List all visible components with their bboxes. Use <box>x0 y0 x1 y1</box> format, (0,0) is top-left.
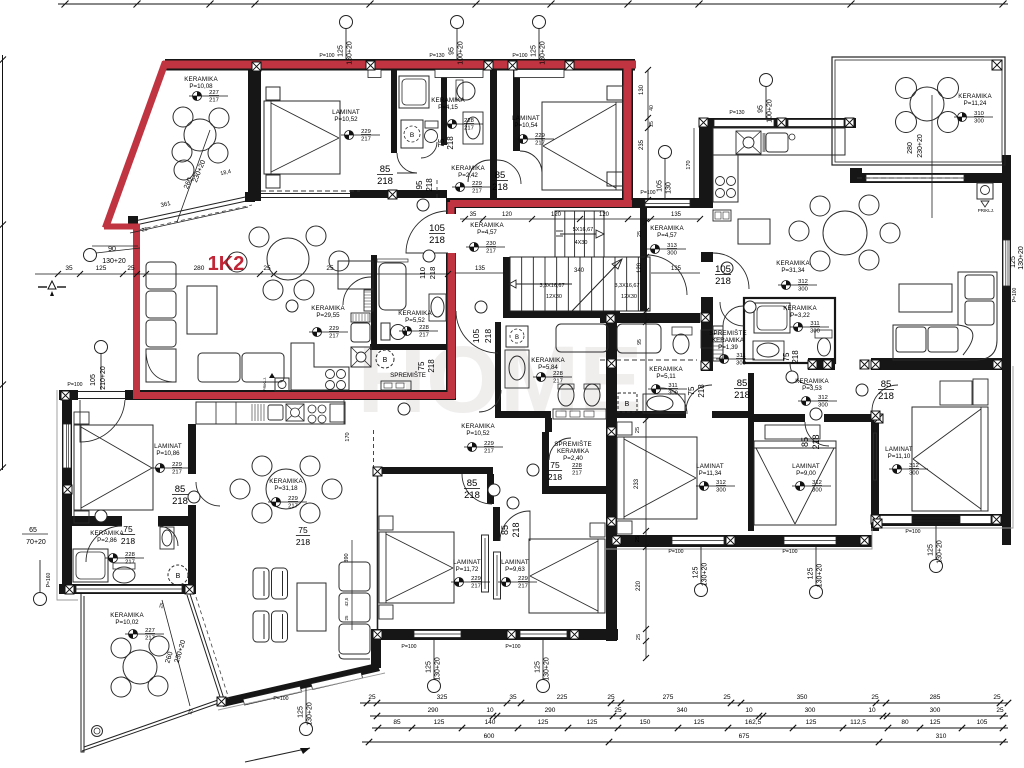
svg-text:130+20: 130+20 <box>1018 246 1024 270</box>
thin parapet offset lines <box>879 366 1013 528</box>
svg-text:P=100: P=100 <box>505 644 520 650</box>
svg-text:KERAMIKA: KERAMIKA <box>184 76 218 83</box>
svg-text:225: 225 <box>557 694 568 701</box>
svg-text:218: 218 <box>878 391 894 402</box>
coffee table bottom apt <box>297 583 326 631</box>
svg-text:P=100: P=100 <box>668 549 683 555</box>
bath P=5,11: sink <box>643 394 685 413</box>
svg-text:85: 85 <box>467 478 478 489</box>
svg-text:P=100: P=100 <box>905 529 920 535</box>
wall 1K2 hall-bed2 divider <box>513 70 520 151</box>
1K2 spremiste washing machine <box>376 350 394 368</box>
svg-text:25: 25 <box>636 634 642 640</box>
svg-text:218: 218 <box>483 329 493 343</box>
svg-text:300: 300 <box>818 403 828 409</box>
svg-text:125: 125 <box>338 45 345 57</box>
svg-text:125: 125 <box>531 45 538 57</box>
svg-text:PRIKLJ.: PRIKLJ. <box>978 208 995 213</box>
wall hall jamb top <box>446 208 456 214</box>
wall bed1-bed2 divider <box>748 373 754 531</box>
svg-text:227: 227 <box>145 628 155 634</box>
svg-text:290: 290 <box>428 707 439 714</box>
svg-text:125: 125 <box>694 719 705 726</box>
svg-text:25: 25 <box>993 694 1001 701</box>
svg-text:311: 311 <box>810 321 819 327</box>
svg-text:25: 25 <box>344 615 349 621</box>
svg-text:125: 125 <box>930 719 941 726</box>
svg-text:220: 220 <box>636 580 642 591</box>
svg-text:125: 125 <box>96 265 107 272</box>
wall bed2-bed3 divider <box>871 411 879 531</box>
svg-text:85: 85 <box>737 378 748 389</box>
1K2 corner sofa <box>146 262 284 382</box>
svg-text:217: 217 <box>419 333 429 339</box>
svg-text:P=100: P=100 <box>401 644 416 650</box>
svg-text:218: 218 <box>734 390 750 401</box>
bed P=11,34 <box>617 437 697 519</box>
wall right of 1K2 <box>622 59 633 208</box>
svg-text:217: 217 <box>518 584 528 590</box>
svg-text:230: 230 <box>486 241 496 247</box>
svg-text:130+20: 130+20 <box>544 657 551 681</box>
svg-text:100+20: 100+20 <box>458 41 465 65</box>
svg-text:P=31,18: P=31,18 <box>274 485 298 492</box>
1K2 coffee table <box>187 286 217 334</box>
svg-text:135: 135 <box>475 266 486 272</box>
svg-text:130+20: 130+20 <box>702 563 709 587</box>
svg-text:105: 105 <box>657 180 664 192</box>
svg-text:3,3X16,67: 3,3X16,67 <box>539 283 564 289</box>
wall hall vertical <box>446 253 456 398</box>
wall bath P584 left wall <box>495 322 501 415</box>
svg-text:LAMINAT: LAMINAT <box>501 559 529 566</box>
svg-text:275: 275 <box>663 694 674 701</box>
wall stairs left wall <box>503 257 510 311</box>
svg-text:170: 170 <box>345 432 351 441</box>
svg-text:P=5,84: P=5,84 <box>538 364 558 371</box>
svg-text:P=10,54: P=10,54 <box>514 122 538 129</box>
1K2 balcony railing diagonal <box>130 196 250 222</box>
wall 1K2 bottom wall <box>125 390 456 400</box>
bath P=5,84: tub <box>556 324 608 352</box>
svg-text:217: 217 <box>288 504 298 510</box>
wall bedroom south wall west <box>62 516 122 526</box>
svg-text:217: 217 <box>535 141 545 147</box>
svg-text:P=160: P=160 <box>46 572 52 587</box>
coffee table top-right <box>899 284 952 312</box>
svg-text:217: 217 <box>572 471 582 477</box>
svg-text:218: 218 <box>811 434 821 449</box>
svg-text:217: 217 <box>484 449 494 455</box>
svg-text:85: 85 <box>500 525 510 535</box>
svg-text:85: 85 <box>393 719 401 726</box>
wardrobe strips <box>482 535 489 592</box>
svg-text:135: 135 <box>671 212 682 218</box>
prikljucak box right <box>977 183 993 199</box>
sliding door strip bed3 <box>874 433 877 480</box>
bath P=5,84: sink <box>505 350 529 388</box>
corridor dimension line <box>460 218 700 220</box>
svg-text:120: 120 <box>502 212 513 218</box>
1K2 dining table <box>267 238 309 280</box>
svg-text:25: 25 <box>614 707 622 714</box>
wall corridor south wall a <box>752 414 805 422</box>
wall mid-left divider lower <box>188 505 196 594</box>
bath P=5,11: washer B <box>618 393 637 412</box>
armchairs bottom apt <box>253 568 269 599</box>
svg-text:300: 300 <box>667 251 677 257</box>
svg-text:P=2,42: P=2,42 <box>458 172 478 179</box>
svg-text:217: 217 <box>472 189 482 195</box>
svg-text:65: 65 <box>29 527 37 534</box>
wall kitchen left wall <box>699 128 713 199</box>
svg-text:229: 229 <box>471 576 481 582</box>
svg-text:105: 105 <box>715 264 731 275</box>
stairs main flight <box>510 257 650 311</box>
kitchen lower cabinets <box>713 155 738 202</box>
svg-text:217: 217 <box>329 334 339 340</box>
wall kitchen top wall <box>699 118 856 128</box>
svg-text:75: 75 <box>782 352 791 361</box>
svg-text:125: 125 <box>808 568 815 580</box>
svg-text:B: B <box>625 401 630 408</box>
wall center divider A <box>487 474 494 504</box>
svg-text:LAMINAT: LAMINAT <box>154 443 182 450</box>
svg-text:125: 125 <box>434 719 445 726</box>
1K2 kitchen column <box>338 261 373 289</box>
svg-text:110: 110 <box>418 267 427 279</box>
door arcs <box>406 211 448 253</box>
svg-text:130+20: 130+20 <box>937 540 944 564</box>
svg-text:85: 85 <box>881 379 892 390</box>
svg-text:300: 300 <box>909 471 919 477</box>
bed P=11,72 <box>379 532 454 603</box>
wall bath bottom wall <box>59 584 196 594</box>
svg-text:233: 233 <box>634 478 640 489</box>
svg-text:218: 218 <box>428 267 437 280</box>
svg-text:130+20: 130+20 <box>307 702 314 726</box>
svg-text:75: 75 <box>417 361 426 370</box>
svg-text:675: 675 <box>739 733 750 740</box>
sofa top-right <box>893 272 997 360</box>
svg-text:SPREMIŠTE: SPREMIŠTE <box>554 441 592 448</box>
svg-text:230+20: 230+20 <box>917 134 924 158</box>
svg-text:229: 229 <box>361 129 371 135</box>
svg-text:105: 105 <box>429 223 445 234</box>
central vertical dimension line <box>645 210 647 658</box>
wall 1K2 terrace-bedroom wall <box>248 64 261 201</box>
wall under 1K2 bedrooms <box>446 198 632 208</box>
svg-text:P=10,52: P=10,52 <box>466 430 490 437</box>
svg-text:300: 300 <box>716 488 726 494</box>
svg-text:P=3,53: P=3,53 <box>802 385 822 392</box>
wall sprem left wall <box>542 432 549 486</box>
north arrow <box>38 281 66 296</box>
svg-text:KERAMIKA: KERAMIKA <box>557 448 590 455</box>
svg-text:SPREMIŠTE: SPREMIŠTE <box>390 372 426 379</box>
svg-text:PRIKLJ.: PRIKLJ. <box>263 377 267 391</box>
svg-text:P=130: P=130 <box>729 110 744 116</box>
svg-text:75: 75 <box>298 525 308 535</box>
svg-text:229: 229 <box>172 462 182 468</box>
svg-text:70+20: 70+20 <box>26 539 46 546</box>
wall 1K2 bath bottom wall <box>370 344 455 350</box>
wall 1K2 bath wall A <box>391 70 397 153</box>
svg-text:75: 75 <box>687 386 696 395</box>
svg-text:218: 218 <box>511 522 521 537</box>
svg-text:125: 125 <box>298 706 305 718</box>
svg-text:LAMINAT: LAMINAT <box>453 559 481 566</box>
svg-text:130+20: 130+20 <box>347 41 354 65</box>
bottom dimension strips <box>360 702 1008 704</box>
wall corridor top wall <box>630 198 713 208</box>
svg-text:229: 229 <box>288 496 298 502</box>
svg-text:311: 311 <box>668 383 677 389</box>
bed P=9,63 <box>529 539 605 613</box>
svg-text:227: 227 <box>209 90 219 96</box>
svg-text:228: 228 <box>125 552 135 558</box>
bathroom P=3,22 outline <box>744 298 835 363</box>
wall bed1 top wall west <box>615 411 686 418</box>
svg-text:5X16,67: 5X16,67 <box>573 227 594 233</box>
svg-text:228: 228 <box>419 325 429 331</box>
svg-text:KERAMIKA: KERAMIKA <box>712 337 745 344</box>
svg-text:312: 312 <box>812 480 822 486</box>
svg-text:312: 312 <box>909 463 919 469</box>
wall 1K2 bottom west piece <box>59 390 78 400</box>
svg-text:120: 120 <box>599 212 610 218</box>
wall sofa room wall block <box>850 168 862 183</box>
1K2 bath2 boiler <box>457 82 475 100</box>
svg-text:120: 120 <box>551 212 562 218</box>
svg-text:135: 135 <box>671 266 682 272</box>
1K2 terrace diagonal dimension <box>130 207 248 233</box>
svg-text:229: 229 <box>518 576 528 582</box>
bath P=5,84: washer <box>506 326 528 347</box>
svg-text:P=4,57: P=4,57 <box>657 232 677 239</box>
svg-text:P=11,10: P=11,10 <box>888 453 911 460</box>
svg-text:LAMINAT: LAMINAT <box>332 109 360 116</box>
svg-text:35: 35 <box>470 212 477 218</box>
svg-text:P=10,02: P=10,02 <box>115 619 139 626</box>
svg-text:228: 228 <box>572 463 582 469</box>
top-right terrace outline <box>832 57 1005 165</box>
svg-text:310: 310 <box>936 733 947 740</box>
svg-text:4X30: 4X30 <box>575 240 588 246</box>
svg-text:KERAMIKA: KERAMIKA <box>110 612 144 619</box>
svg-text:218: 218 <box>296 537 310 547</box>
svg-text:600: 600 <box>484 733 495 740</box>
stairs upper flight <box>555 211 604 257</box>
svg-text:125: 125 <box>806 719 817 726</box>
svg-text:P=9,00: P=9,00 <box>796 470 816 477</box>
svg-text:313: 313 <box>667 243 677 249</box>
svg-text:90: 90 <box>108 246 116 253</box>
wall sprem bottom wall <box>542 486 606 494</box>
svg-text:218: 218 <box>172 496 188 507</box>
bath P=3,22: shower <box>754 303 790 333</box>
svg-text:P=100: P=100 <box>1012 287 1018 302</box>
wall 1K2 bath left wall <box>371 255 377 347</box>
wall left exterior <box>62 390 72 594</box>
bath P=5,84: vanity <box>553 409 606 419</box>
svg-text:LAMINAT: LAMINAT <box>696 463 724 470</box>
svg-text:312: 312 <box>818 395 828 401</box>
svg-text:P=2,40: P=2,40 <box>563 455 583 462</box>
svg-text:P=4,15: P=4,15 <box>438 104 458 111</box>
svg-text:217: 217 <box>145 636 155 642</box>
wall diagonal living room <box>220 663 380 707</box>
terrace drain <box>92 726 103 737</box>
svg-text:95: 95 <box>637 339 643 345</box>
svg-text:P=11,34: P=11,34 <box>699 470 722 477</box>
wall bottom bedrooms wall <box>371 629 618 640</box>
svg-text:218: 218 <box>446 136 455 150</box>
1K2 bed 1 <box>264 101 340 174</box>
svg-text:217: 217 <box>125 560 135 566</box>
svg-text:228: 228 <box>553 371 563 377</box>
wall mid-left divider upper <box>188 424 196 474</box>
svg-text:130+20: 130+20 <box>435 657 442 681</box>
bath bottom-left: sink <box>160 527 174 549</box>
svg-text:KERAMIKA: KERAMIKA <box>776 260 810 267</box>
svg-text:P=130: P=130 <box>429 53 444 59</box>
svg-text:B: B <box>383 357 388 364</box>
wall spr jamb <box>545 418 552 432</box>
svg-text:125: 125 <box>587 719 598 726</box>
window sills top wall <box>368 70 381 78</box>
svg-text:218: 218 <box>492 182 508 193</box>
svg-text:228: 228 <box>464 118 474 124</box>
wall kitchen wall lower <box>701 297 713 371</box>
bath P=5,84: wc pair <box>558 384 574 406</box>
svg-text:390: 390 <box>344 553 350 562</box>
svg-text:125: 125 <box>928 544 935 556</box>
svg-text:218: 218 <box>427 359 436 373</box>
bath P=3,22: wc <box>815 330 832 338</box>
svg-text:120: 120 <box>637 262 643 273</box>
svg-text:25: 25 <box>607 694 615 701</box>
svg-text:280: 280 <box>907 142 914 154</box>
corner sofa bottom apt <box>339 562 370 659</box>
svg-text:P=2,86: P=2,86 <box>97 537 117 544</box>
svg-text:P=100: P=100 <box>273 696 288 702</box>
svg-text:85: 85 <box>380 164 391 175</box>
wall corridor south wall b <box>824 414 872 422</box>
svg-text:KERAMIKA: KERAMIKA <box>269 478 303 485</box>
terrace table bottom-left <box>123 650 157 684</box>
svg-text:312: 312 <box>798 279 808 285</box>
svg-text:P=5,11: P=5,11 <box>656 373 676 380</box>
dashed line under top-right terrace <box>857 177 965 179</box>
svg-text:KERAMIKA: KERAMIKA <box>431 97 465 104</box>
svg-text:10: 10 <box>868 707 876 714</box>
svg-text:290: 290 <box>545 707 556 714</box>
svg-text:285: 285 <box>930 694 941 701</box>
svg-text:300: 300 <box>974 119 984 125</box>
svg-text:218: 218 <box>425 178 434 192</box>
svg-text:75: 75 <box>550 460 560 470</box>
svg-text:25: 25 <box>723 694 731 701</box>
svg-text:B: B <box>515 335 519 341</box>
wall center bedrooms top wall <box>373 467 493 474</box>
svg-text:10: 10 <box>745 707 753 714</box>
svg-text:25: 25 <box>635 536 641 542</box>
wall bedroom3 bottom wall <box>871 514 1006 526</box>
svg-text:P=3,22: P=3,22 <box>790 312 810 319</box>
1K2 bath2 wc <box>425 121 438 128</box>
wall 1K2 bedroom1 south wall <box>350 190 447 198</box>
svg-text:35: 35 <box>509 694 517 701</box>
svg-text:112,5: 112,5 <box>850 719 866 726</box>
svg-text:125: 125 <box>1010 256 1017 268</box>
svg-text:310: 310 <box>974 111 984 117</box>
svg-text:170: 170 <box>686 160 692 169</box>
svg-text:75: 75 <box>123 524 133 534</box>
svg-text:125: 125 <box>426 661 433 673</box>
wall junction hatch boxes <box>61 391 70 400</box>
svg-text:140: 140 <box>485 719 496 726</box>
svg-text:P=4,57: P=4,57 <box>477 229 497 236</box>
dining table bottom apt <box>266 469 306 509</box>
svg-text:340: 340 <box>574 268 585 274</box>
svg-text:125: 125 <box>538 719 549 726</box>
wall top of 1K2 <box>165 59 635 71</box>
svg-text:300: 300 <box>668 391 678 397</box>
svg-text:25: 25 <box>637 231 643 237</box>
kitchen vertical dims <box>647 70 649 200</box>
svg-text:P=100: P=100 <box>512 53 527 59</box>
svg-text:P=10,08: P=10,08 <box>189 83 213 90</box>
svg-text:130: 130 <box>666 182 673 194</box>
svg-text:P=29,55: P=29,55 <box>316 312 340 319</box>
svg-text:300: 300 <box>805 707 816 714</box>
svg-text:235: 235 <box>639 139 645 150</box>
svg-text:210+20: 210+20 <box>100 366 107 390</box>
svg-text:SPREMIŠTE: SPREMIŠTE <box>709 330 747 337</box>
wall right apt bottom wall <box>606 535 872 547</box>
svg-text:325: 325 <box>437 694 448 701</box>
bath P=3,22: sink <box>753 341 784 360</box>
kitchen counter bottom apt <box>196 402 345 424</box>
living room dimension line <box>35 273 448 275</box>
svg-text:125: 125 <box>535 661 542 673</box>
svg-text:218: 218 <box>697 384 706 398</box>
svg-text:25: 25 <box>127 265 135 272</box>
bath bottom-left: wc <box>113 567 135 583</box>
svg-text:218: 218 <box>377 176 393 187</box>
svg-text:25: 25 <box>996 707 1004 714</box>
svg-text:P=11,24: P=11,24 <box>964 100 987 107</box>
svg-text:B: B <box>410 132 414 139</box>
top dimension line <box>58 1 1008 8</box>
terrace bottom-left outline <box>81 594 84 752</box>
svg-text:LAMINAT: LAMINAT <box>512 115 540 122</box>
sprem P=1,39: shower corner <box>701 330 713 348</box>
wall jog wall <box>371 629 381 668</box>
svg-text:218: 218 <box>429 235 445 246</box>
svg-text:95: 95 <box>415 180 424 189</box>
svg-text:12X30: 12X30 <box>621 294 637 300</box>
svg-text:130+20: 130+20 <box>102 258 126 265</box>
svg-text:KERAMIKA: KERAMIKA <box>398 310 432 317</box>
svg-text:130+20: 130+20 <box>540 41 547 65</box>
wall bedroom south wall east <box>158 516 196 526</box>
svg-text:35: 35 <box>65 265 73 272</box>
svg-text:300: 300 <box>812 488 822 494</box>
svg-text:130+20: 130+20 <box>817 564 824 588</box>
svg-text:105: 105 <box>471 329 481 343</box>
